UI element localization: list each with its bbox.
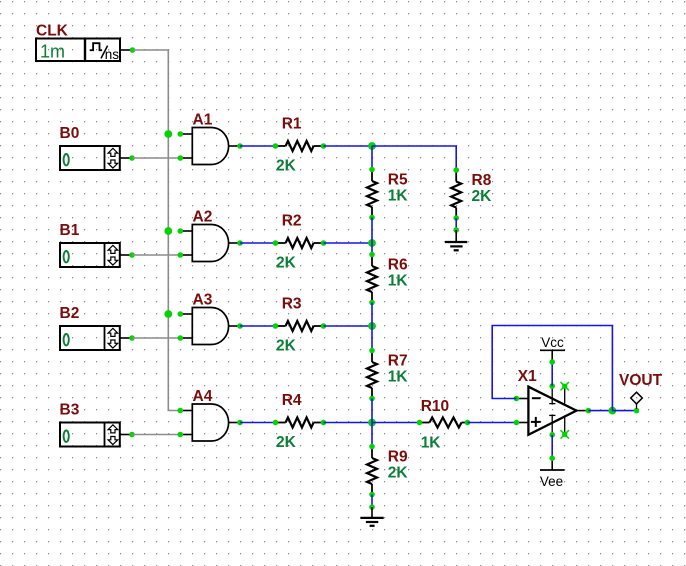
wire ladder into R9 — [371, 423, 373, 447]
svg-text:A4: A4 — [193, 388, 213, 405]
wire output to VOUT terminal — [612, 408, 639, 414]
svg-text:R4: R4 — [282, 392, 302, 409]
wire B1 to A2 input — [132, 254, 180, 256]
pin CLK output — [120, 47, 135, 53]
svg-text:2K: 2K — [276, 434, 297, 451]
pin B2 output — [120, 335, 135, 341]
junction CLK rail to A2 — [164, 227, 172, 235]
svg-text:R6: R6 — [388, 257, 408, 274]
digital source B1 — [60, 243, 120, 267]
wire R6 to ladder node below — [371, 303, 373, 327]
svg-text:A2: A2 — [193, 208, 213, 225]
svg-text:X1: X1 — [518, 368, 537, 385]
resistor R6 — [367, 252, 377, 306]
wire B0 to A1 input — [132, 157, 180, 159]
wire R2 to ladder node — [324, 242, 373, 244]
junction output node — [609, 407, 617, 415]
wire Vcc to X1 — [549, 359, 555, 386]
wire ladder into R5 — [371, 146, 373, 170]
svg-text:ns: ns — [105, 47, 120, 62]
wire ladder node to R10 — [372, 422, 420, 424]
wire R1 to ladder node — [324, 145, 373, 147]
wire R10 to X1 noninverting input — [468, 422, 517, 424]
wire R5 to ladder node below — [371, 218, 373, 244]
junction CLK rail to A1 — [164, 130, 172, 138]
digital source B0 — [60, 146, 120, 170]
no-connect mark bottom pin — [561, 430, 569, 438]
wire ladder into R7 — [371, 326, 373, 351]
wire A2 output to R2 — [240, 242, 276, 244]
and gate A1 — [178, 128, 243, 165]
junction ladder node row 2 — [368, 239, 376, 247]
wire R8 to ground — [453, 218, 459, 233]
svg-text:1K: 1K — [388, 369, 409, 386]
pin B1 output — [120, 252, 135, 258]
wire A1 output to R1 — [240, 145, 276, 147]
svg-text:B0: B0 — [60, 125, 80, 142]
clock source CLK — [36, 39, 120, 62]
svg-text:R5: R5 — [388, 172, 408, 189]
svg-text:R3: R3 — [282, 296, 302, 313]
wire ladder into R6 — [371, 243, 373, 255]
resistor R1 — [273, 141, 327, 151]
svg-text:Vcc: Vcc — [541, 335, 564, 350]
and gate A4 — [178, 404, 243, 441]
power symbol Vee — [540, 458, 565, 489]
wire B3 to A4 input — [132, 434, 180, 436]
svg-text:1K: 1K — [388, 188, 409, 205]
resistor R5 — [367, 167, 377, 221]
resistor R3 — [273, 321, 327, 331]
no-connect mark top pin — [561, 382, 569, 390]
svg-text:A1: A1 — [193, 111, 213, 128]
svg-text:A3: A3 — [193, 291, 213, 308]
svg-text:R10: R10 — [421, 398, 449, 415]
svg-text:1m: 1m — [40, 41, 65, 61]
wire X1 to Vee — [549, 435, 555, 461]
power symbol Vcc — [540, 335, 565, 362]
svg-text:R9: R9 — [388, 449, 408, 466]
wire R9 to ground — [369, 495, 375, 510]
resistor R7 — [367, 348, 377, 402]
junction ladder node row 1 — [368, 142, 376, 150]
digital source B2 — [60, 326, 120, 350]
wire A4 output to R4 — [240, 422, 276, 424]
resistor R2 — [273, 238, 327, 248]
svg-text:2K: 2K — [276, 254, 297, 271]
svg-text:2K: 2K — [276, 337, 297, 354]
svg-text:R1: R1 — [282, 116, 302, 133]
pin B0 output — [120, 155, 135, 161]
svg-text:2K: 2K — [388, 465, 409, 482]
and gate A3 — [178, 308, 243, 345]
pin B3 output — [120, 432, 135, 438]
svg-text:1K: 1K — [388, 273, 409, 290]
svg-text:CLK: CLK — [36, 22, 69, 39]
resistor R8 — [451, 167, 461, 221]
terminal VOUT diamond — [631, 392, 643, 409]
svg-text:2K: 2K — [276, 157, 297, 174]
junction ladder node row 4 — [368, 419, 376, 427]
wire R4 to ladder node — [324, 422, 373, 424]
wire feedback to inverting input — [492, 326, 612, 411]
wire ladder row1 to R8 — [372, 146, 456, 170]
ground below R9 — [361, 507, 384, 526]
ground below R8 — [445, 230, 467, 250]
svg-text:B3: B3 — [60, 402, 80, 419]
op-amp X1 — [514, 383, 592, 437]
svg-text:2K: 2K — [472, 188, 493, 205]
wire CLK net — [133, 50, 181, 411]
svg-text:R8: R8 — [472, 172, 492, 189]
wire R7 to ladder node below — [371, 399, 373, 423]
resistor R10 — [417, 418, 471, 428]
svg-text:B2: B2 — [60, 305, 80, 322]
junction CLK rail to A3 — [164, 310, 172, 318]
wire B2 to A3 input — [132, 337, 180, 339]
and gate A2 — [178, 225, 243, 262]
svg-text:R2: R2 — [282, 213, 302, 230]
wire R3 to ladder node — [324, 325, 373, 327]
svg-text:R7: R7 — [388, 353, 408, 370]
svg-text:1K: 1K — [421, 435, 442, 452]
wire X1 output to node — [588, 410, 612, 412]
svg-text:B1: B1 — [60, 222, 80, 239]
digital source B3 — [60, 423, 120, 447]
svg-text:Vee: Vee — [540, 474, 563, 489]
wire A3 output to R3 — [240, 325, 276, 327]
svg-text:VOUT: VOUT — [619, 372, 663, 389]
resistor R4 — [273, 418, 327, 428]
junction ladder node row 3 — [368, 322, 376, 330]
resistor R9 — [367, 444, 377, 498]
